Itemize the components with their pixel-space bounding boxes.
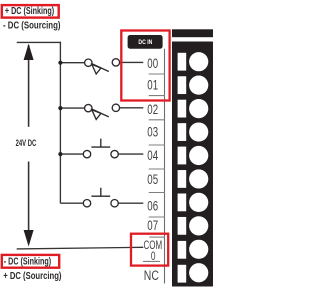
svg-text:24V DC: 24V DC: [16, 138, 37, 148]
svg-text:05: 05: [147, 172, 158, 187]
svg-text:DC IN: DC IN: [138, 40, 152, 46]
svg-text:+ DC (Sinking): + DC (Sinking): [5, 6, 54, 17]
svg-text:- DC (Sinking): - DC (Sinking): [4, 256, 51, 267]
pushbutton contact for input 06: [83, 188, 118, 207]
junction node at 02: [58, 106, 62, 110]
callout box sinking top: [2, 5, 59, 18]
bottom rail wire to COM: [17, 247, 144, 249]
switch SW6 wire from bus: [60, 202, 83, 204]
svg-text:+ DC (Sourcing): + DC (Sourcing): [3, 271, 61, 282]
callout box terminals 00 01: [121, 31, 169, 101]
svg-text:0: 0: [151, 249, 156, 263]
terminal block top white stripe: [172, 37, 213, 41]
terminal block body: [172, 29, 213, 286]
switch SW6 wire to terminal 06: [118, 202, 143, 204]
24V arrow stem lower: [28, 162, 30, 232]
svg-text:06: 06: [147, 198, 158, 213]
terminal row separators: [143, 74, 165, 261]
svg-text:01: 01: [147, 78, 158, 93]
switch SW2 wire to terminal 02: [120, 107, 144, 109]
wiring: stroke group: [17, 42, 144, 249]
24V arrowhead down: [24, 230, 34, 247]
junction node at 04: [58, 152, 62, 156]
svg-text:02: 02: [147, 102, 158, 117]
switch SW0 wire to terminal 00: [120, 61, 144, 63]
top rail wire: [17, 41, 61, 43]
terminal block screw holes: [189, 52, 208, 282]
24V arrow stem upper: [28, 45, 30, 127]
pushbutton contact for input 04: [83, 139, 118, 158]
switch SW4 wire from bus: [60, 153, 83, 155]
bus wire: [59, 42, 61, 203]
switch SW2 wire from bus: [60, 107, 84, 109]
terminal labels: [147, 56, 158, 233]
svg-text:07: 07: [147, 218, 158, 233]
switch SW4 wire to terminal 04: [118, 153, 143, 155]
callout box sinking bottom: [2, 255, 59, 268]
terminal block slots column: [178, 53, 187, 283]
DC IN header box: [128, 35, 163, 49]
callout box terminal COM: [131, 234, 168, 266]
svg-text:00: 00: [147, 56, 158, 71]
svg-text:04: 04: [147, 148, 158, 163]
svg-text:NC: NC: [144, 267, 159, 283]
limit switch contact for input 00: [85, 59, 120, 74]
svg-text:- DC (Sourcing): - DC (Sourcing): [3, 20, 61, 31]
svg-text:03: 03: [147, 124, 158, 139]
24V arrowhead up: [24, 44, 34, 60]
label COM 0: [144, 238, 163, 263]
terminal label column line: [164, 49, 166, 284]
limit switch contact for input 02: [85, 104, 120, 119]
switch SW0 wire from bus: [60, 62, 84, 64]
junction node at 00: [58, 61, 62, 65]
